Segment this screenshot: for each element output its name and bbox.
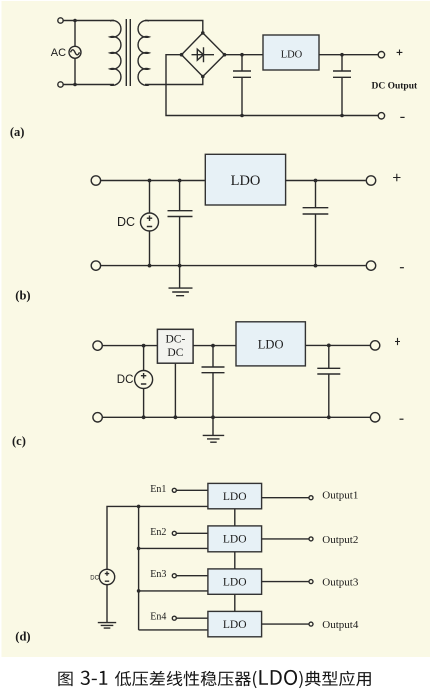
svg-text:AC: AC xyxy=(51,47,66,59)
svg-text:Output4: Output4 xyxy=(322,619,359,631)
svg-text:(a): (a) xyxy=(10,125,25,139)
svg-text:LDO: LDO xyxy=(223,534,247,546)
svg-text:LDO: LDO xyxy=(223,577,247,589)
svg-text:LDO: LDO xyxy=(223,619,247,631)
svg-text:DC: DC xyxy=(90,575,99,581)
svg-text:Output1: Output1 xyxy=(322,490,358,502)
svg-text:En1: En1 xyxy=(150,484,166,495)
svg-text:(d): (d) xyxy=(15,630,30,644)
svg-text:En3: En3 xyxy=(150,569,166,580)
svg-text:DC: DC xyxy=(117,374,134,386)
svg-text:En4: En4 xyxy=(150,612,166,623)
svg-text:LDO: LDO xyxy=(281,49,303,60)
svg-text:En2: En2 xyxy=(150,527,166,538)
svg-text:LDO: LDO xyxy=(223,491,247,503)
svg-text:DC: DC xyxy=(167,347,183,359)
svg-text:(b): (b) xyxy=(15,289,30,303)
svg-text:Output2: Output2 xyxy=(322,534,358,546)
svg-text:Output3: Output3 xyxy=(322,577,359,589)
svg-text:DC: DC xyxy=(117,215,135,229)
svg-text:LDO: LDO xyxy=(258,338,284,352)
svg-text:DC Output: DC Output xyxy=(372,81,418,91)
svg-text:DC-: DC- xyxy=(166,333,186,345)
svg-text:LDO: LDO xyxy=(231,173,261,189)
svg-text:(c): (c) xyxy=(12,434,26,448)
